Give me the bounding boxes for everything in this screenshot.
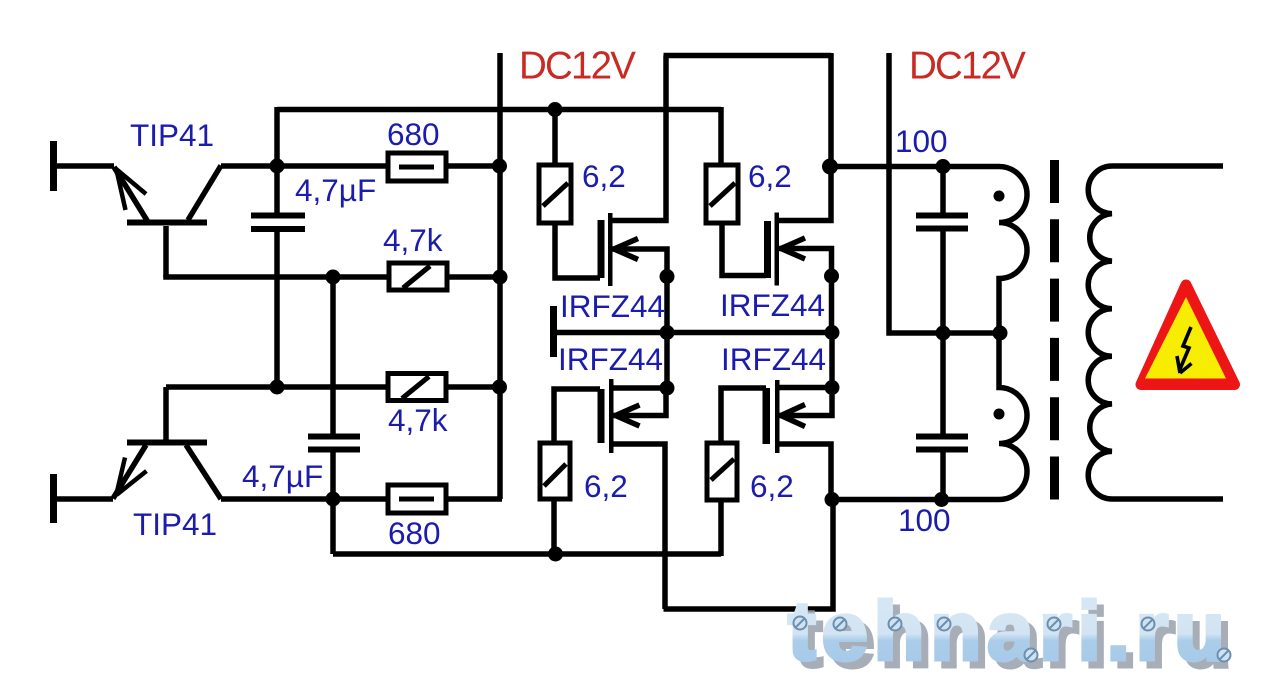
- resistor R7 6,2: [540, 443, 570, 499]
- wire Q2 base row to R3 4,7k: [166, 384, 390, 390]
- wire top link y55: [664, 53, 832, 59]
- input terminal top: [50, 141, 57, 191]
- MOSFET M3 IRFZ44: [598, 379, 640, 453]
- junction M3 drain node C: [660, 381, 675, 396]
- svg-text:IRFZ44: IRFZ44: [558, 341, 663, 377]
- resistor R5 6,2: [539, 165, 571, 223]
- watermark tehnari.ru: [788, 585, 1238, 685]
- MOSFET M4 IRFZ44: [763, 380, 806, 453]
- svg-text:6,2: 6,2: [584, 468, 628, 504]
- wire M4 source down: [779, 444, 831, 500]
- junction M1 source mid: [660, 269, 675, 284]
- wire bottom link y609: [664, 500, 834, 609]
- junction centre tap: [993, 326, 1008, 341]
- wire node D vertical (mid rail to M4 drain): [829, 333, 835, 388]
- wire R4 680 right lead to bus bottom corner: [444, 496, 502, 502]
- wire C4 100 bottom lead: [940, 452, 946, 500]
- wire R6 6,2 top lead from rail corner: [718, 107, 724, 166]
- resistor R4 680: [388, 485, 446, 513]
- gate rail terminal bar: [550, 306, 557, 357]
- junction mid rail left: [660, 325, 675, 340]
- junction rail-R5: [548, 102, 563, 117]
- wire C4 100 top lead: [940, 333, 946, 434]
- wire M2 drain up to transformer feed: [778, 53, 831, 221]
- transformer T1 core dashed line: [1050, 160, 1059, 500]
- junction Q2 base node: [270, 380, 285, 395]
- wire top rail y109 from node A to R5 6,2: [277, 107, 721, 113]
- wire R3 4,7k right lead to bus: [444, 384, 500, 390]
- junction bus-R3: [492, 380, 507, 395]
- wire R1 680 right lead to +12V bus: [444, 163, 500, 169]
- svg-text:TIP41: TIP41: [133, 506, 217, 542]
- high voltage warning sign: [1141, 285, 1235, 385]
- transistor Q2 TIP41: [113, 440, 221, 500]
- wire node B vertical x333 lower (cap C2 through Q2 collector node to bottom rail): [330, 452, 336, 554]
- svg-text:100: 100: [898, 502, 951, 538]
- junction primary bottom left: [825, 492, 840, 507]
- junction Q1 collector node A: [270, 159, 285, 174]
- resistor R6 6,2: [706, 165, 738, 223]
- wire R7 6,2 top lead to M3 gate: [554, 389, 600, 443]
- wire node C vertical (mid rail to M3 drain): [664, 333, 670, 389]
- wire DC12V right bus x889 to centre tap: [889, 53, 1000, 333]
- wire C3 100 bottom lead: [940, 231, 946, 333]
- svg-text:IRFZ44: IRFZ44: [560, 288, 665, 324]
- transistor Q1 TIP41: [114, 166, 221, 226]
- resistor R3 4,7k: [388, 374, 446, 401]
- svg-text:DC12V: DC12V: [909, 45, 1026, 88]
- junction mid rail right: [825, 325, 840, 340]
- wire Q1 base lead down: [163, 226, 169, 277]
- wire M3 body arrow return: [614, 388, 667, 416]
- wire M4 drain to node D: [778, 385, 832, 391]
- wire M2 source down to mid rail: [778, 249, 832, 333]
- wire Q1 emitter input: [57, 163, 114, 169]
- wire Q1 collector to R1 680: [221, 163, 390, 169]
- svg-text:6,2: 6,2: [582, 158, 626, 194]
- junction bottom rail R7: [548, 547, 563, 562]
- junction caps midpoint: [936, 326, 951, 341]
- svg-text:4,7k: 4,7k: [383, 222, 443, 258]
- capacitor C3 100: [916, 213, 968, 232]
- junction C4 bottom: [934, 492, 949, 507]
- resistor R2 4,7k: [389, 263, 447, 290]
- svg-text:DC12V: DC12V: [519, 45, 636, 88]
- capacitor C4 100: [916, 434, 968, 453]
- wire M3 drain to node C: [612, 385, 667, 391]
- wire Q2 base lead up: [163, 387, 169, 440]
- MOSFET M1 IRFZ44: [598, 213, 639, 286]
- wire DC12V left bus x500: [497, 53, 503, 499]
- wire Q1 base row to R2 4,7k: [166, 275, 391, 278]
- svg-text:IRFZ44: IRFZ44: [721, 341, 826, 377]
- svg-text:4,7µF: 4,7µF: [295, 172, 376, 208]
- wire bottom rail y554: [333, 551, 721, 557]
- svg-text:6,2: 6,2: [750, 468, 794, 504]
- junction bus-R2: [493, 270, 508, 285]
- transformer T1 primary winding upper: [999, 167, 1027, 334]
- svg-text:TIP41: TIP41: [130, 117, 214, 153]
- wire mid rail y332: [557, 330, 833, 336]
- wire feed to primary top: [831, 164, 999, 170]
- wire R2 4,7k right lead to bus: [445, 274, 500, 280]
- wire M4 body arrow return: [779, 388, 832, 416]
- wire R8 6,2 top lead to M4 gate: [721, 388, 766, 443]
- svg-text:IRFZ44: IRFZ44: [720, 287, 825, 323]
- junction M4 drain node D: [825, 380, 840, 395]
- wire M1 source down to mid rail: [611, 249, 667, 333]
- junction row2 node B: [326, 270, 341, 285]
- junction M2 source mid: [824, 269, 839, 284]
- capacitor C1 4,7uF: [251, 213, 305, 233]
- wire R8 6,2 bottom lead: [718, 501, 724, 556]
- svg-text:680: 680: [387, 116, 440, 152]
- junction C3 top: [936, 159, 951, 174]
- wire Q2 collector to R4 680: [221, 496, 390, 502]
- wire node A vertical x277 lower (cap C1 to Q2 base node): [274, 231, 280, 387]
- wire node B vertical x333 upper (row2 to cap C2): [330, 277, 336, 434]
- transformer T1 primary phase dot upper: [994, 191, 1005, 202]
- junction Q2 collector node: [326, 492, 341, 507]
- transformer T1 primary phase dot lower: [994, 409, 1005, 420]
- wire R5 6,2 top lead from rail: [552, 110, 558, 167]
- wire R7 6,2 bottom lead to bottom rail: [551, 498, 557, 554]
- svg-text:6,2: 6,2: [748, 158, 792, 194]
- wire C3 100 top lead: [940, 167, 946, 214]
- svg-text:4,7k: 4,7k: [388, 402, 448, 438]
- junction bus-R1: [492, 159, 507, 174]
- svg-text:tehnari.ru: tehnari.ru: [788, 585, 1231, 678]
- MOSFET M2 IRFZ44: [764, 213, 805, 286]
- wire R5 6,2 bottom lead to M1 gate: [555, 222, 600, 278]
- wire Q2 emitter input: [57, 496, 113, 502]
- transformer T1 primary winding lower: [999, 333, 1027, 500]
- svg-text:100: 100: [895, 123, 948, 159]
- wire R6 6,2 bottom lead to M2 gate: [722, 222, 766, 276]
- input terminal bottom: [50, 474, 57, 523]
- transformer T1 secondary winding: [1088, 166, 1223, 499]
- junction primary top feed: [822, 159, 838, 175]
- wire M3 source down: [614, 444, 666, 609]
- resistor R8 6,2: [707, 443, 737, 500]
- resistor R1 680: [388, 153, 446, 181]
- svg-text:4,7µF: 4,7µF: [242, 458, 323, 494]
- wire M1 drain up to top link: [611, 56, 666, 221]
- wire node A vertical x277 upper (collector node to rail): [274, 107, 280, 213]
- capacitor C2 4,7uF: [308, 434, 360, 453]
- wire primary bottom return y500: [831, 497, 999, 503]
- svg-text:680: 680: [388, 515, 441, 551]
